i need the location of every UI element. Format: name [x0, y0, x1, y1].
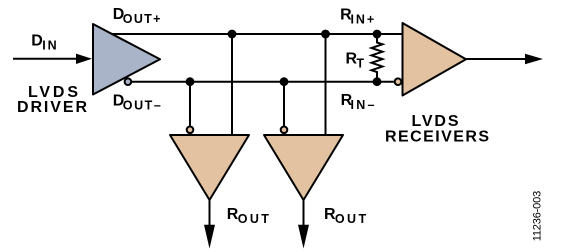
svg-text:OUT: OUT: [335, 212, 367, 226]
wire: D_IN input line: [13, 58, 78, 60]
label LVDS DRIVER: [17, 84, 87, 116]
wire: vertical drop to receiver 1 inverting input: [189, 82, 191, 126]
svg-text:DRIVER: DRIVER: [17, 99, 87, 116]
node: junction dot top line / receiver 1: [228, 30, 237, 39]
label D_IN: [31, 33, 56, 53]
svg-text:OUT–: OUT–: [123, 99, 161, 113]
wire: top bus line D_OUT+ to R_IN+: [110, 33, 403, 35]
op-amp U3 LVDS receiver (down-pointing, right): [264, 135, 343, 200]
wire: vertical drop to receiver 1 non-inverting input: [231, 34, 233, 135]
svg-text:OUT+: OUT+: [123, 12, 161, 26]
node: junction dot bottom line / receiver 2: [280, 77, 289, 86]
label D_OUT-: [113, 93, 161, 113]
inversion bubble on receiver U2 input: [187, 127, 194, 134]
svg-text:OUT: OUT: [238, 212, 270, 226]
label D_OUT+: [113, 6, 161, 26]
wire: receiver U4 output: [466, 58, 527, 60]
inversion bubble on driver output D_OUT-: [125, 78, 132, 85]
svg-text:D: D: [31, 33, 43, 50]
label R_OUT (receiver U2): [227, 206, 269, 226]
label R_IN+: [340, 6, 374, 26]
node: junction dot top line / receiver 2: [321, 30, 330, 39]
wire: receiver U2 output R_OUT: [209, 200, 211, 227]
node: junction dot top line / RT: [373, 30, 382, 39]
svg-text:T: T: [356, 56, 364, 70]
svg-text:IN: IN: [42, 39, 56, 53]
wire arrowhead into driver: [76, 54, 92, 64]
wire: bottom bus line D_OUT- to R_IN-: [128, 81, 394, 83]
wire: vertical drop to receiver 2 inverting input: [283, 82, 285, 126]
inversion bubble on receiver U3 input: [281, 127, 288, 134]
label R_OUT (receiver U3): [324, 206, 366, 226]
svg-text:RECEIVERS: RECEIVERS: [385, 128, 489, 145]
wire: receiver U3 output R_OUT: [303, 200, 305, 227]
op-amp U1 LVDS driver: [93, 24, 160, 95]
label LVDS RECEIVERS: [385, 113, 489, 145]
op-amp U4 LVDS receiver (right-pointing): [403, 23, 467, 96]
node: junction dot bottom line / receiver 1: [186, 77, 195, 86]
wire: vertical drop to receiver 2 non-inverting input: [325, 34, 327, 135]
resistor RT: [372, 34, 383, 82]
inversion bubble on receiver U4 input R_IN-: [395, 78, 402, 85]
node: junction dot bottom line / RT: [373, 77, 382, 86]
op-amp U2 LVDS receiver (down-pointing, left): [170, 135, 249, 200]
label R_T: [346, 50, 365, 70]
label R_IN-: [341, 92, 375, 112]
svg-text:11236-003: 11236-003: [531, 191, 543, 242]
